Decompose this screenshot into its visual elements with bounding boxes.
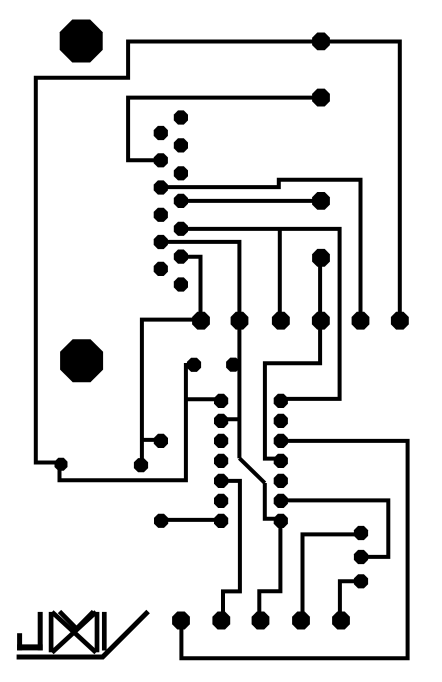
logo letter M left stem [49,612,54,652]
pad U1-L5 [154,235,168,249]
pad U1-R4 [174,194,188,208]
pad P1 [226,358,240,372]
pad U2-L3 [214,434,228,448]
wire net10 [142,320,201,466]
pad J3-2 [212,612,230,630]
pad U2-R6 [274,494,288,508]
wire net5 branch [278,229,282,321]
wire net8 tail [259,521,280,621]
logo letter J stem [38,612,43,651]
pad U1-L1 [154,126,168,140]
via V1 [55,458,68,471]
pad U2-R1 [274,394,288,408]
pad J3-3 [252,612,270,630]
pad J3-1 [172,612,190,630]
pad U1-R3 [174,166,188,180]
wire net8 stub [221,417,239,421]
wire net9 [221,481,240,621]
pad U2-R5 [274,474,288,488]
pad P8 [354,574,368,588]
pad U1-R1 [174,110,188,124]
wire net2 [128,98,321,161]
wire net8 diagonal [239,458,264,483]
pad U1-L2 [154,153,168,167]
pad U1-R6 [174,250,188,264]
wire net1 right drop [36,42,400,481]
pad J2-5 [352,312,370,330]
wire net6 [181,257,201,321]
logo letter M diagonal 2 [52,612,96,653]
pad P4 [134,458,148,472]
wire net1 branch to U2-L1 [186,397,218,401]
pad U2-L6 [214,494,228,508]
pad P5 [154,514,168,528]
logo letter M right stem [95,612,100,652]
pad U1-R2 [174,138,188,152]
pad J2-4 [312,312,330,330]
pad J1-3 [312,192,330,210]
wire net8 lower [265,483,276,519]
pad U2-R2 [274,414,288,428]
pad U2-L4 [214,454,228,468]
logo letter V left stem [102,612,107,651]
pad U2-L5 [214,474,228,488]
pad J1-2 [312,89,330,107]
wire net8 upper [161,242,240,458]
pad J2-6 [391,312,409,330]
wire net7 [265,258,320,459]
wire net11 [161,518,221,522]
pad U2-L1 [214,394,228,408]
pad U1-L4 [154,208,168,222]
pad U2-R4 [274,454,288,468]
pad P3 [154,434,168,448]
logo letter M diagonal 1 [52,612,96,653]
wire net4 [181,199,321,203]
pad P6 [354,526,368,540]
wire net12 [181,441,407,658]
wire net10 branch [142,438,161,442]
pad J2-2 [231,312,249,330]
logo letter J bottom [17,644,43,650]
logo letter J hook [17,633,22,650]
logo letter M middle vee [60,612,94,629]
pad U1-R7 [174,277,188,291]
pad U2-L2 [214,414,228,428]
pad J1-1 [312,33,330,51]
pad J3-4 [292,612,310,630]
pad U1-R5 [174,222,188,236]
wire net3 [161,180,361,321]
pad U1-L6 [154,262,168,276]
pad P7 [354,550,368,564]
wire net15 [340,581,361,620]
pad J1-4 [312,249,330,267]
pad U2-L7 [214,514,228,528]
wire net14 [281,500,389,557]
pad J2-1 [192,312,210,330]
pad U2-R3 [274,434,288,448]
mounting hole H1 [60,20,103,63]
wire net13 [303,534,362,620]
pad J3-5 [332,612,350,630]
pad J2-3 [272,312,290,330]
pad U2-R7 [274,514,288,528]
pad U1-L3 [154,180,168,194]
logo underline and V diagonal [17,612,149,658]
mounting hole H2 [60,339,103,382]
pad P2 [187,358,201,372]
wire net5 main [181,229,340,399]
